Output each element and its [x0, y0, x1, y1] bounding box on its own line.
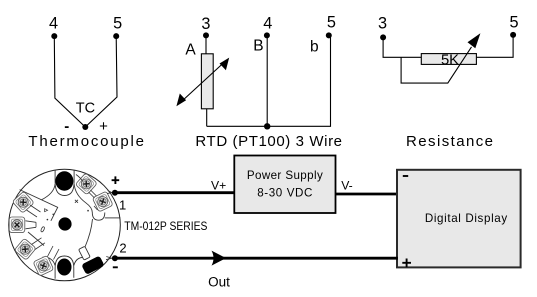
head channel curve upper-right — [74, 184, 92, 213]
TC junction dot — [82, 124, 88, 130]
wiper arrowhead — [468, 33, 481, 48]
screw terminal top-left — [12, 191, 34, 213]
terminal 5 dot — [326, 32, 332, 38]
svg-text:TC: TC — [76, 100, 95, 116]
digital display box — [397, 170, 521, 268]
svg-text:Out: Out — [208, 275, 230, 290]
power supply box — [234, 156, 335, 214]
head small star mark — [75, 200, 78, 203]
display plus pin — [402, 259, 411, 268]
svg-text:1: 1 — [119, 198, 126, 213]
screw terminal right — [92, 191, 113, 212]
wire resistor to terminal5 — [476, 35, 513, 57]
head small dot mark b — [47, 219, 49, 221]
head channel curve lower-right — [74, 257, 87, 265]
terminal 4 dot — [264, 32, 270, 38]
RTD variable arrow — [176, 58, 229, 107]
svg-text:3: 3 — [201, 15, 210, 33]
current direction arrowhead — [212, 251, 227, 266]
pin plus sign — [112, 176, 120, 184]
wiper arm wire — [401, 47, 471, 83]
head notch at pin2 — [106, 257, 112, 260]
head channel curve lower-left — [43, 257, 56, 265]
head small dot mark a — [52, 214, 54, 216]
svg-text:4: 4 — [49, 14, 58, 32]
svg-text:b: b — [310, 39, 319, 56]
svg-text:A: A — [185, 42, 196, 59]
svg-text:5K: 5K — [441, 52, 459, 68]
svg-text:Thermocouple: Thermocouple — [28, 133, 144, 150]
head small oval mark — [40, 226, 45, 232]
svg-text:Digital Display: Digital Display — [425, 212, 508, 225]
wire power supply to display — [336, 193, 398, 196]
wire terminal4 to bus — [266, 35, 268, 126]
screw terminal bottom — [33, 255, 54, 276]
wire pin2 to display — [115, 257, 398, 260]
head top pocket — [55, 170, 74, 195]
wire terminal3 to RTD element — [205, 35, 207, 53]
terminal 3 dot — [380, 34, 386, 40]
head channel right side down — [85, 219, 93, 248]
screw terminal top-right — [75, 173, 97, 195]
terminal 5 dot — [113, 33, 119, 39]
terminal 4 dot — [51, 33, 57, 39]
svg-text:4: 4 — [263, 14, 272, 32]
head clamp tab bottom — [48, 246, 60, 260]
svg-text:5: 5 — [113, 14, 122, 32]
head connector outline — [79, 246, 91, 260]
svg-text:V-: V- — [341, 178, 353, 192]
svg-text:V+: V+ — [211, 178, 226, 192]
pin minus sign — [113, 266, 118, 268]
RTD element body — [201, 54, 213, 109]
head small triangle mark — [45, 209, 48, 212]
display minus pin — [403, 175, 408, 177]
svg-text:B: B — [253, 38, 263, 55]
head clamp tab bottom-left — [32, 238, 46, 250]
head center hub — [58, 217, 71, 230]
head cluster inner edge — [76, 175, 98, 211]
head bottom black oval — [57, 259, 71, 276]
wire TC positive leg — [85, 36, 117, 127]
screw terminal left — [9, 217, 25, 233]
head notch at pin1 — [107, 190, 112, 193]
svg-text:RTD (PT100) 3 Wire: RTD (PT100) 3 Wire — [195, 133, 342, 150]
head bottom pocket — [55, 256, 74, 279]
head clamp tab top-left — [27, 205, 41, 217]
head small square mark — [87, 210, 89, 212]
wire terminal3 to resistor — [383, 37, 421, 57]
wire RTD element to bus — [206, 109, 208, 127]
svg-text:Power Supply: Power Supply — [247, 169, 323, 182]
terminal 5 dot — [510, 32, 516, 38]
svg-text:3: 3 — [378, 14, 387, 32]
pin 2 terminal dot — [112, 255, 118, 261]
wire bottom bus — [207, 35, 331, 126]
head wedge line to right edge — [105, 217, 121, 219]
terminal 3 dot — [203, 32, 209, 38]
head cluster division right — [89, 190, 97, 198]
head tongue — [92, 213, 105, 221]
head upper-left clamp chord — [20, 190, 58, 221]
head top black oval — [55, 171, 73, 191]
head channel curve upper-left — [42, 184, 56, 200]
junction dot on bus — [264, 123, 270, 129]
svg-text:5: 5 — [509, 13, 518, 31]
resistor 5K body — [421, 54, 476, 65]
wire TC negative leg — [54, 36, 85, 127]
wire pin1 to power supply — [115, 191, 234, 194]
svg-text:TM-012P SERIES: TM-012P SERIES — [124, 219, 207, 233]
head lower-left clamp chord — [28, 232, 44, 246]
head black block — [81, 255, 104, 274]
svg-text:8-30 VDC: 8-30 VDC — [257, 187, 312, 200]
transmitter TM-012P head outline — [9, 169, 121, 281]
svg-text:5: 5 — [327, 13, 336, 31]
screw terminal bottom-left — [14, 238, 36, 260]
pin 1 terminal dot — [112, 190, 118, 196]
head clamp tab left — [26, 221, 37, 229]
svg-text:2: 2 — [119, 241, 126, 256]
